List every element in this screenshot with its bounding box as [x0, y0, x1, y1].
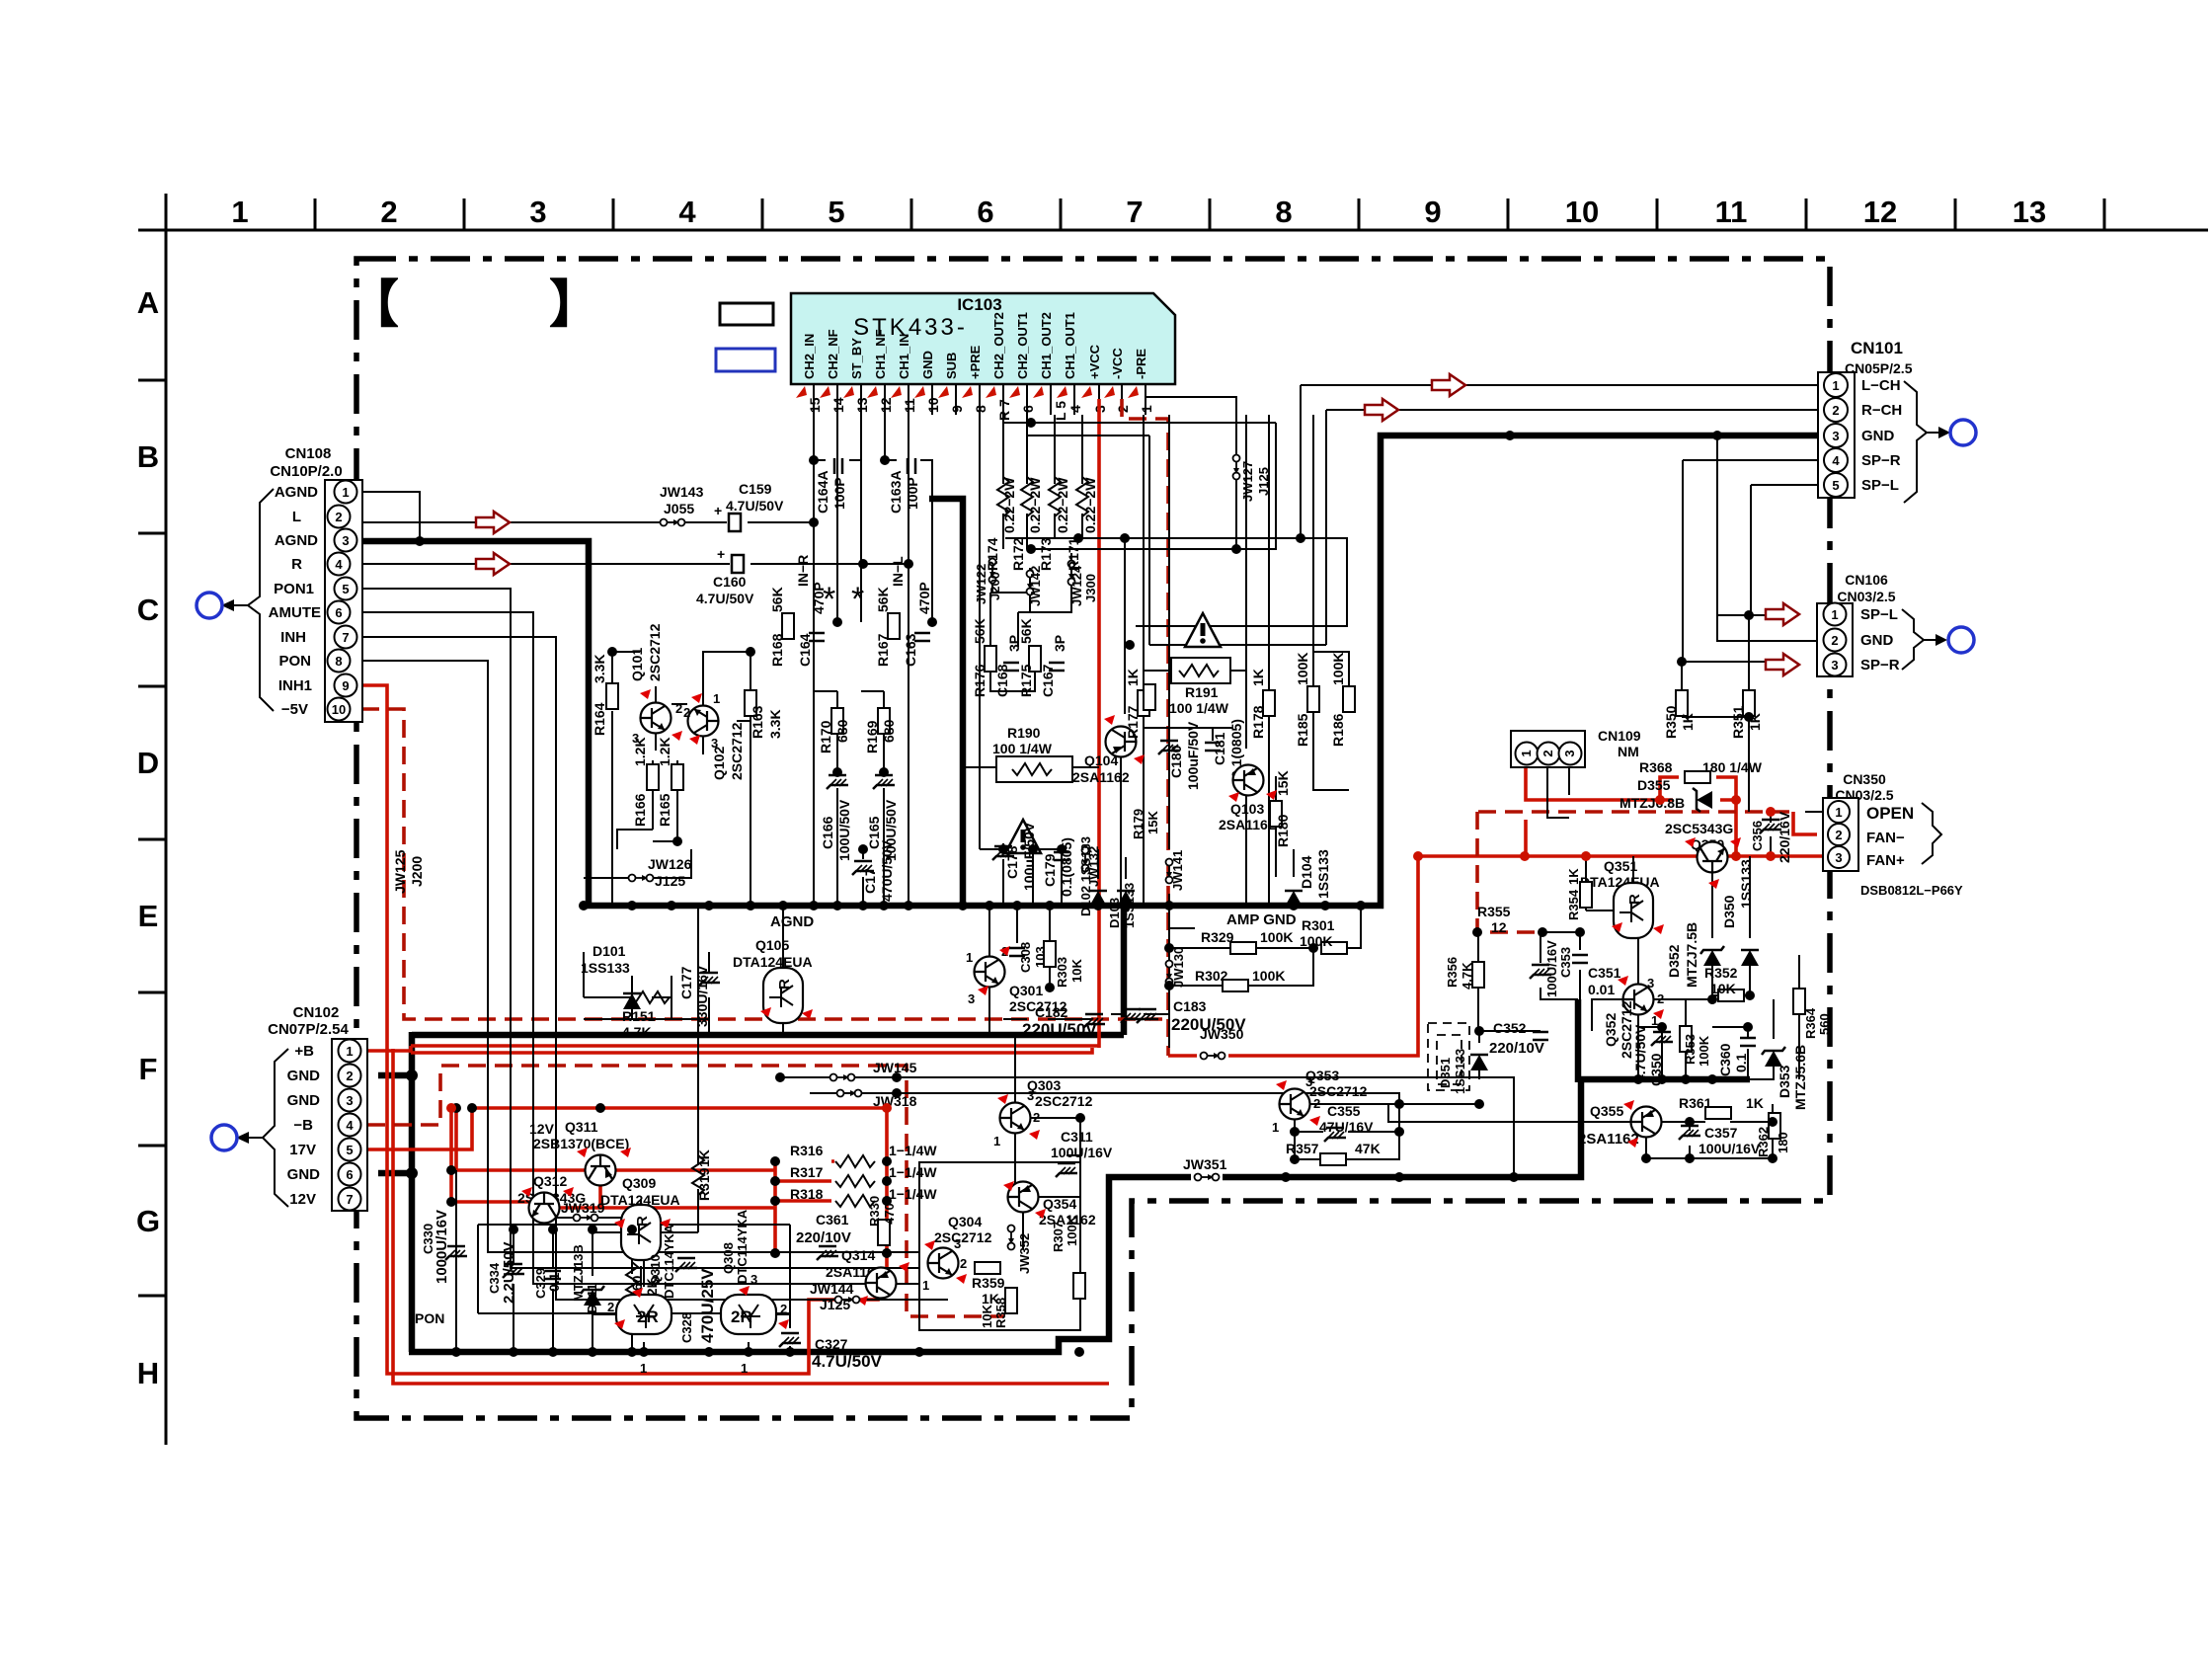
svg-text:R351: R351	[1730, 705, 1746, 739]
svg-text:PON: PON	[415, 1310, 444, 1326]
resistor R169 680	[878, 708, 890, 734]
svg-text:CN109: CN109	[1598, 728, 1641, 744]
svg-text:C166: C166	[820, 816, 835, 849]
svg-text:C168: C168	[994, 664, 1010, 697]
transistor Q101 2SC2712	[641, 703, 671, 734]
svg-text:GND: GND	[1860, 632, 1894, 649]
svg-text:1: 1	[231, 195, 248, 229]
svg-text:JW352: JW352	[1017, 1233, 1032, 1274]
zener D353 MTZJ5.6B	[1762, 1047, 1785, 1067]
wire CN106 GND	[1717, 436, 1817, 641]
svg-text:R330: R330	[867, 1196, 882, 1227]
svg-text:R164: R164	[592, 702, 607, 736]
svg-text:PON: PON	[278, 653, 311, 670]
svg-text:12: 12	[878, 397, 894, 413]
svg-text:15K: 15K	[1145, 811, 1160, 834]
svg-text:NM: NM	[1618, 744, 1639, 759]
svg-text:R350: R350	[1663, 705, 1679, 739]
svg-text:10: 10	[332, 702, 346, 717]
wire JW127 column	[1145, 395, 1236, 549]
svg-text:1SS133: 1SS133	[1738, 859, 1754, 909]
ruler column ticks	[315, 198, 2104, 230]
svg-text:1.2K: 1.2K	[632, 737, 648, 766]
wire R364 column	[1798, 955, 1800, 1079]
wire Q354 link	[1023, 1197, 1080, 1249]
svg-text:CH1_OUT2: CH1_OUT2	[1039, 312, 1054, 379]
wire CN108 pin1 AGND	[361, 492, 420, 540]
svg-text:1: 1	[342, 485, 349, 500]
svg-text:L−CH: L−CH	[1861, 377, 1901, 394]
resistor R166 1.2K	[647, 764, 659, 790]
signal arrow R-CH line	[1365, 399, 1398, 421]
capacitor C330 1000U/16V	[445, 1246, 467, 1260]
svg-text:0.1: 0.1	[546, 1272, 562, 1292]
svg-text:1K: 1K	[1125, 669, 1141, 686]
resistor R303 10K	[1044, 941, 1056, 967]
svg-text:4.7U/50V: 4.7U/50V	[812, 1352, 883, 1371]
svg-text:470P: 470P	[916, 582, 932, 614]
svg-text:4: 4	[335, 557, 343, 572]
svg-text:+VCC: +VCC	[1087, 344, 1102, 379]
svg-text:D355: D355	[1637, 777, 1671, 793]
ruler row letters	[136, 285, 160, 1390]
svg-text:AGND: AGND	[770, 913, 814, 930]
wire C360 column	[1712, 1027, 1748, 1079]
wire JW145 row	[780, 1077, 1514, 1177]
svg-text:10: 10	[1565, 195, 1599, 229]
wire D351 column	[1479, 1031, 1540, 1079]
svg-text:100K: 100K	[1065, 1215, 1079, 1246]
node circle blue CN102	[211, 1125, 237, 1150]
svg-text:100K: 100K	[1252, 968, 1285, 984]
legend black box	[720, 303, 773, 325]
svg-text:PON1: PON1	[274, 581, 314, 597]
svg-text:SP−L: SP−L	[1860, 606, 1898, 623]
diode D104 1SS133	[1285, 891, 1303, 907]
svg-text:1SS133: 1SS133	[1315, 849, 1331, 899]
svg-text:R316: R316	[790, 1143, 824, 1158]
svg-text:D104: D104	[1299, 855, 1314, 889]
svg-text:AGND: AGND	[275, 532, 318, 549]
svg-text:R362: R362	[1756, 1127, 1771, 1157]
svg-text:CN10P/2.0: CN10P/2.0	[270, 463, 342, 480]
svg-text:CN106: CN106	[1845, 572, 1888, 588]
svg-text:SUB: SUB	[944, 353, 959, 379]
svg-text:CH2_OUT1: CH2_OUT1	[1015, 312, 1030, 379]
wire IC pin8 +PRE column	[979, 415, 981, 849]
zener D311 MTZJ13B	[581, 1286, 604, 1306]
svg-text:C328: C328	[679, 1312, 694, 1343]
connector CN102 pin names	[287, 1043, 321, 1208]
svg-text:R−CH: R−CH	[1861, 402, 1902, 419]
capacitor C329 0.1	[545, 1271, 561, 1279]
warning triangle lower	[1005, 820, 1041, 853]
svg-text:100U/16V: 100U/16V	[1051, 1145, 1113, 1160]
svg-text:INH1: INH1	[278, 677, 312, 694]
svg-text:R358: R358	[993, 1298, 1008, 1328]
capacitor C327 4.7U/50V	[779, 1333, 801, 1347]
resistor R178 1K	[1263, 690, 1275, 716]
svg-text:R176: R176	[972, 664, 987, 697]
svg-text:9: 9	[949, 405, 965, 413]
resistor R186 100K	[1343, 686, 1355, 712]
svg-text:5: 5	[346, 1143, 353, 1157]
svg-text:2: 2	[675, 701, 682, 716]
svg-text:FAN+: FAN+	[1866, 852, 1905, 869]
capacitor C167 3P	[1049, 663, 1065, 671]
resistor R307 100K	[1073, 1273, 1085, 1299]
connector CN101 body	[1818, 372, 1855, 498]
svg-text:2SA1162: 2SA1162	[1072, 769, 1130, 785]
svg-text:Q103: Q103	[1230, 801, 1264, 817]
IC103 pin labels	[802, 312, 1148, 379]
svg-text:330U/16V: 330U/16V	[694, 965, 710, 1027]
svg-text:56K: 56K	[972, 618, 987, 644]
border ruler left line	[165, 194, 168, 1445]
svg-text:15K: 15K	[1275, 770, 1291, 796]
svg-text:10K: 10K	[980, 1305, 994, 1328]
svg-text:CH2_OUT2: CH2_OUT2	[991, 312, 1006, 379]
svg-text:+: +	[717, 546, 725, 562]
svg-text:JW127: JW127	[1240, 461, 1255, 502]
signal arrow into CN106 pin1	[1766, 603, 1799, 625]
svg-text:2SC2712: 2SC2712	[647, 623, 663, 681]
svg-text:GND: GND	[287, 1092, 321, 1109]
svg-text:3: 3	[1027, 1088, 1034, 1103]
svg-text:6: 6	[977, 195, 993, 229]
wire C308 column	[1016, 906, 1018, 943]
svg-text:220/16V: 220/16V	[1777, 811, 1792, 863]
svg-text:2SC2712: 2SC2712	[934, 1229, 992, 1245]
svg-text:2: 2	[1033, 1110, 1040, 1125]
svg-text:0.1: 0.1	[1733, 1053, 1749, 1072]
svg-text:5: 5	[1832, 478, 1839, 493]
svg-text:C356: C356	[1750, 821, 1765, 851]
wire IC pin12 column	[885, 415, 932, 622]
wire JW132 column	[1084, 844, 1086, 849]
svg-text:3: 3	[954, 1236, 961, 1251]
svg-text:C: C	[137, 593, 159, 627]
svg-text:R180: R180	[1275, 814, 1291, 847]
svg-text:R368: R368	[1639, 759, 1673, 775]
wire R190 row	[963, 671, 1246, 767]
red dashed -B net	[367, 1066, 1004, 1316]
svg-text:R173: R173	[1038, 537, 1054, 571]
svg-text:5: 5	[342, 582, 349, 596]
svg-text:JW130: JW130	[1171, 947, 1186, 988]
svg-text:4: 4	[346, 1118, 354, 1133]
wire JW318 row	[810, 1093, 1399, 1132]
wire PON1 run	[361, 589, 919, 1268]
svg-text:56K: 56K	[875, 587, 891, 612]
node circle blue CN108	[197, 593, 222, 618]
wire R185 R186 columns	[1313, 415, 1349, 790]
signal arrow L-CH line	[1432, 374, 1465, 396]
svg-text:4.7K: 4.7K	[622, 1024, 652, 1040]
connector CN109 body	[1511, 731, 1585, 767]
wire R353 column	[1685, 999, 1687, 1079]
svg-text:R303: R303	[1055, 957, 1069, 988]
wire R166 R165 columns	[617, 760, 677, 849]
svg-text:3: 3	[1831, 658, 1838, 673]
svg-text:Q311: Q311	[565, 1119, 598, 1135]
signal arrow R line	[476, 553, 510, 575]
wire R352 row	[1712, 994, 1750, 996]
svg-text:Q314: Q314	[841, 1247, 875, 1263]
svg-text:8: 8	[973, 405, 988, 413]
wire R361 row	[1660, 1121, 1773, 1123]
connector CN101 pin names	[1861, 377, 1902, 494]
wire R329 row	[1169, 906, 1361, 948]
diode D102 1SS133	[1089, 891, 1107, 907]
svg-text:R301: R301	[1302, 917, 1335, 933]
svg-text:C334: C334	[487, 1262, 502, 1294]
svg-text:R166: R166	[632, 793, 648, 827]
red wire fan feed right	[1726, 854, 1823, 858]
svg-text:6: 6	[1020, 405, 1036, 413]
svg-text:CN350: CN350	[1843, 771, 1886, 787]
svg-text:100U/50V: 100U/50V	[836, 799, 852, 861]
svg-text:】: 】	[549, 277, 600, 334]
svg-text:C163A: C163A	[888, 470, 904, 514]
op-amp power IC U/IC103 STK433 block	[791, 293, 1175, 384]
svg-text:Q301: Q301	[1009, 983, 1043, 998]
red wire Q350 collector riser	[1524, 820, 1528, 856]
svg-text:470: 470	[882, 1203, 897, 1225]
wire CN350 pin1 stub	[1805, 811, 1823, 813]
resistor R361 1K	[1705, 1107, 1731, 1119]
IC103 pin numbers	[807, 397, 1154, 421]
wire Q104 column	[1121, 538, 1125, 906]
capacitor C168 3P	[1003, 663, 1019, 671]
svg-text:R190: R190	[1007, 725, 1041, 741]
wire Q101 Q102	[612, 652, 750, 906]
svg-text:R179: R179	[1131, 809, 1145, 839]
wire R350 R351 bottom	[1682, 717, 1749, 812]
svg-text:Q102: Q102	[711, 747, 727, 780]
wire D352 column	[1711, 856, 1713, 999]
wire gnd bottom bus right of JW351	[1223, 1079, 1581, 1177]
wire 0.22 bank bottoms	[1003, 514, 1082, 549]
wire R177 column	[1143, 415, 1145, 906]
wire IC pin13 column	[860, 415, 862, 593]
jumper JW318	[837, 1090, 862, 1097]
svg-text:CN108: CN108	[285, 445, 332, 462]
svg-text:1−1/4W: 1−1/4W	[889, 1164, 937, 1180]
wire R176 cluster top	[990, 593, 1035, 691]
svg-text:C357: C357	[1704, 1125, 1738, 1141]
svg-text:IN−L: IN−L	[890, 556, 906, 587]
svg-text:1−1/4W: 1−1/4W	[889, 1143, 937, 1158]
wire feedback row F2	[1149, 436, 1326, 645]
wire L-CH line	[1301, 385, 1818, 538]
svg-text:D103: D103	[1107, 898, 1122, 928]
red dashed -PRE from IC pin1	[1122, 399, 1168, 1056]
svg-text:3.3K: 3.3K	[767, 709, 783, 739]
resistor R364 560	[1793, 989, 1805, 1014]
svg-text:E: E	[138, 899, 159, 933]
svg-text:C352: C352	[1493, 1020, 1527, 1036]
wire C357 column	[1689, 1122, 1691, 1158]
svg-text:C17: C17	[862, 868, 878, 894]
resistor R301 100K	[1321, 942, 1347, 954]
red wire R bank left rail	[775, 1161, 887, 1272]
wire C353 C351 row	[1540, 932, 1580, 999]
diode D350 1SS133	[1741, 950, 1759, 966]
svg-text:15: 15	[807, 397, 823, 413]
wire Q105 column	[782, 906, 784, 1035]
svg-text:Q352: Q352	[1603, 1013, 1619, 1047]
svg-text:2SB1370(BCE): 2SB1370(BCE)	[533, 1136, 629, 1151]
svg-text:3: 3	[750, 1272, 757, 1287]
svg-text:D353: D353	[1777, 1065, 1792, 1098]
svg-text:7: 7	[1126, 195, 1143, 229]
wire SP-R net	[1682, 460, 1818, 717]
svg-text:10: 10	[925, 397, 941, 413]
wire D353 column	[1750, 999, 1774, 1079]
svg-text:R185: R185	[1295, 713, 1310, 747]
svg-text:R359: R359	[972, 1275, 1005, 1291]
svg-text:2: 2	[1313, 1096, 1320, 1111]
wire Q353 emitter	[1294, 1120, 1296, 1159]
svg-text:J125: J125	[655, 873, 685, 889]
capacitor C180 100uF/50V	[1158, 741, 1180, 754]
svg-text:5: 5	[828, 195, 844, 229]
resistor R168 56K	[782, 613, 794, 639]
svg-text:C160: C160	[713, 574, 747, 590]
svg-text:1: 1	[993, 1134, 1000, 1148]
svg-text:8: 8	[335, 654, 342, 669]
svg-text:9: 9	[1424, 195, 1441, 229]
svg-text:1: 1	[922, 1278, 929, 1293]
svg-text:C183: C183	[1173, 998, 1207, 1014]
svg-text:1K: 1K	[696, 1149, 712, 1167]
svg-text:220/10V: 220/10V	[1489, 1040, 1544, 1057]
wire JW126 row	[584, 849, 691, 878]
svg-text:R167: R167	[875, 633, 891, 667]
wire R356 column	[1477, 932, 1479, 1031]
signal arrow L line	[476, 512, 510, 533]
svg-text:-VCC: -VCC	[1110, 348, 1125, 379]
svg-text:Q354: Q354	[1043, 1196, 1076, 1212]
wire JW122 jumpers verticals	[992, 553, 1071, 612]
red wire second left rail	[393, 1049, 1109, 1384]
wire AMUTE run	[361, 612, 919, 1284]
jumper JW352	[1008, 1226, 1015, 1250]
wire Q103 column	[1245, 415, 1247, 906]
svg-text:CH2_IN: CH2_IN	[802, 334, 817, 379]
svg-text:R357: R357	[1286, 1141, 1319, 1156]
wire Q309 stub	[592, 1199, 698, 1286]
svg-text:GND: GND	[287, 1068, 321, 1084]
svg-text:100U/16V: 100U/16V	[1544, 940, 1559, 997]
svg-text:J200: J200	[987, 572, 1002, 600]
svg-text:CN102: CN102	[293, 1004, 340, 1021]
svg-text:2: 2	[335, 510, 342, 524]
svg-text:D102 1SS133: D102 1SS133	[1078, 836, 1093, 916]
svg-text:C177: C177	[678, 966, 694, 999]
svg-text:100uF/50V: 100uF/50V	[1185, 721, 1201, 790]
wire C180 C181 row	[1144, 728, 1232, 741]
svg-text:CH1_IN: CH1_IN	[897, 334, 911, 379]
svg-text:GND: GND	[1861, 428, 1895, 444]
wire R362 column	[1773, 1112, 1775, 1114]
jumper JW132	[1082, 847, 1089, 872]
svg-text:+B: +B	[294, 1043, 314, 1060]
svg-text:4.7U/50V: 4.7U/50V	[1632, 1024, 1648, 1082]
svg-text:OPEN: OPEN	[1866, 804, 1914, 823]
svg-text:CH2_NF: CH2_NF	[826, 329, 840, 379]
wire R319 column	[697, 906, 699, 1232]
resistor R302 100K	[1223, 980, 1248, 991]
resistor R318 1-1/4W	[835, 1195, 875, 1207]
svg-text:R353: R353	[1683, 1034, 1698, 1065]
bracket CN102	[263, 1049, 288, 1207]
capacitor C164A 100P	[834, 458, 842, 474]
svg-text:0.01: 0.01	[1588, 982, 1615, 997]
svg-text:JW143: JW143	[660, 484, 704, 500]
svg-text:3.3K: 3.3K	[592, 654, 607, 683]
capacitor C179 0.1(0805)	[1054, 852, 1069, 860]
wire gnd stub at C351	[1575, 999, 1582, 1082]
svg-text:Q105: Q105	[755, 937, 789, 953]
wire PON run	[361, 661, 919, 1252]
node arrow CN101	[1927, 432, 1938, 434]
svg-text:R175: R175	[1018, 664, 1034, 697]
capacitor C163 470P	[914, 633, 930, 641]
wire JW141 column	[1168, 415, 1170, 906]
resistor R350 1K	[1676, 690, 1688, 716]
board outline dash-dot frame	[356, 259, 1830, 1418]
svg-text:1K: 1K	[1746, 1095, 1764, 1111]
jumper JW142	[1027, 571, 1034, 595]
connector CN106 body	[1817, 603, 1853, 676]
svg-text:2SA1162: 2SA1162	[1219, 817, 1276, 832]
svg-text:2: 2	[1657, 991, 1664, 1006]
wire CN102 pin2 stub	[378, 1072, 412, 1079]
wire R to C160 right	[750, 563, 908, 565]
svg-text:1: 1	[1519, 750, 1534, 756]
svg-text:7: 7	[342, 630, 349, 645]
svg-text:1: 1	[1835, 805, 1842, 820]
wire D102 D103 columns	[1098, 849, 1126, 906]
svg-text:4.7U/50V: 4.7U/50V	[726, 498, 784, 514]
jumper JW145	[830, 1074, 855, 1081]
resistor R171 0.22-2W	[1076, 477, 1088, 516]
svg-text:Q312: Q312	[533, 1173, 567, 1189]
border ruler top line	[138, 229, 2208, 232]
resistor R329 100K	[1230, 942, 1256, 954]
svg-text:11: 11	[1715, 195, 1748, 229]
wire Q351 cluster	[1586, 856, 1633, 911]
red wire R316 stubs	[775, 1161, 834, 1201]
bracket CN106	[1902, 609, 1924, 670]
resistor R165 1.2K	[671, 764, 683, 790]
svg-text:R191: R191	[1185, 684, 1219, 700]
svg-text:1: 1	[1831, 607, 1838, 622]
diode D103 1SS133	[1117, 891, 1135, 907]
svg-text:J200: J200	[409, 856, 425, 887]
transistor Q103 2SA1162	[1233, 765, 1264, 796]
wire Q352 cluster	[1592, 934, 1712, 1079]
capacitor C360 0.1	[1740, 1038, 1756, 1046]
svg-text:10K: 10K	[1069, 959, 1084, 983]
svg-text:R318: R318	[790, 1186, 824, 1202]
wire bottom left component rail	[456, 1170, 790, 1351]
wire out rail B	[1031, 423, 1276, 549]
svg-text:R364: R364	[1803, 1007, 1818, 1039]
svg-text:H: H	[137, 1356, 159, 1390]
